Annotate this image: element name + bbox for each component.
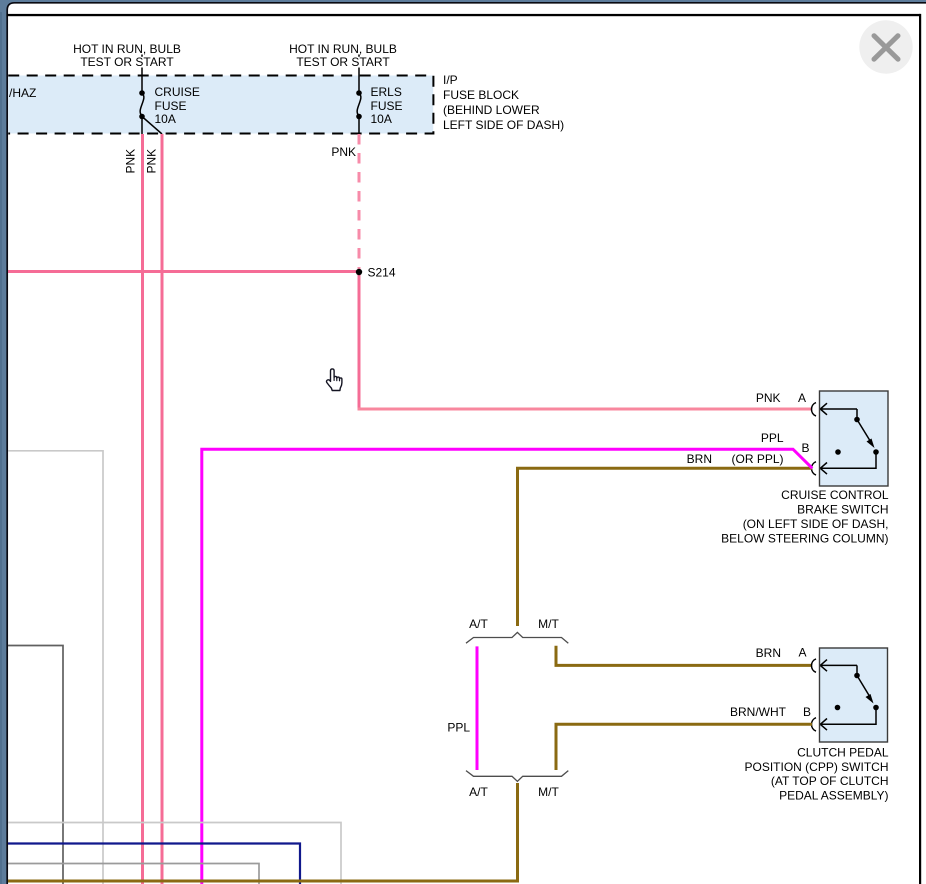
- blue page top strip: [0, 0, 926, 3]
- title separator line: [7, 14, 921, 16]
- svg-text:BRN: BRN: [756, 646, 781, 660]
- wire BRN from lower brace to left edge: [8, 783, 518, 881]
- pin B terminal arrow: [820, 452, 876, 474]
- blue page left column: [0, 0, 7, 884]
- pin A terminal arrow: [820, 403, 857, 415]
- svg-text:PNK: PNK: [756, 391, 781, 405]
- svg-text:CRUISE: CRUISE: [155, 85, 200, 99]
- svg-text:PEDAL ASSEMBLY): PEDAL ASSEMBLY): [779, 789, 888, 803]
- wire PNK horizontal to brake switch pin A: [358, 408, 813, 411]
- stationary contact dot: [835, 705, 841, 711]
- svg-text:S214: S214: [368, 266, 396, 280]
- svg-text:B: B: [803, 705, 811, 719]
- splice S214: [356, 269, 362, 275]
- stationary contact dot: [835, 449, 841, 455]
- wire PNK horizontal to left edge: [8, 270, 359, 273]
- close button: [859, 20, 912, 73]
- svg-text:A: A: [798, 646, 806, 660]
- label I/P FUSE BLOCK: [443, 73, 564, 132]
- navy wire corner 4: [8, 844, 300, 884]
- svg-text:POSITION (CPP) SWITCH: POSITION (CPP) SWITCH: [745, 760, 889, 774]
- switch arm (cruise brake switch): [856, 409, 858, 418]
- wire PNK vertical 2 (from cruise fuse branch): [161, 134, 164, 884]
- svg-text:FUSE: FUSE: [371, 99, 403, 113]
- gray wire (unrelated circuit) corner 1: [8, 451, 103, 884]
- svg-text:HOT IN RUN, BULB: HOT IN RUN, BULB: [289, 42, 397, 56]
- svg-text:PNK: PNK: [145, 149, 159, 174]
- label HOT IN RUN (ERLS fuse): [289, 42, 397, 69]
- dark gray wire corner 2: [8, 646, 63, 884]
- wire PNK from S214 down and right to brake switch pin A: [358, 272, 361, 408]
- svg-text:BRN: BRN: [687, 452, 712, 466]
- svg-text:BELOW STEERING COLUMN): BELOW STEERING COLUMN): [721, 532, 888, 546]
- mouse hand cursor: [327, 369, 342, 391]
- clutch pedal position switch U2 box: [820, 648, 888, 742]
- label HOT IN RUN (CRUISE fuse): [73, 42, 181, 69]
- ERLS fuse F2: [356, 55, 402, 135]
- lower brace A/T M/T: [466, 771, 568, 782]
- wire PNK dashed (ERLS fuse to S214): [358, 134, 361, 272]
- label CRUISE CONTROL BRAKE SWITCH: [721, 488, 889, 546]
- svg-text:HOT IN RUN, BULB: HOT IN RUN, BULB: [73, 42, 181, 56]
- wire BRN M/T branch to CPP switch pin A: [556, 646, 812, 666]
- pin A terminal arrow: [820, 660, 857, 672]
- svg-text:(OR PPL): (OR PPL): [732, 452, 784, 466]
- wire PPL magenta horizontal + vertical: [202, 449, 813, 884]
- label CLUTCH PEDAL POSITION SWITCH: [745, 746, 889, 803]
- pin B connector (female): [812, 718, 817, 731]
- pin A connector (female): [812, 659, 817, 672]
- svg-text:PNK: PNK: [331, 145, 356, 159]
- svg-text:I/P: I/P: [443, 73, 458, 87]
- svg-text:(BEHIND LOWER: (BEHIND LOWER: [443, 103, 540, 117]
- svg-text:BRN/WHT: BRN/WHT: [730, 705, 787, 719]
- upper brace A/T M/T: [466, 632, 568, 643]
- pin B terminal arrow: [820, 708, 876, 731]
- svg-text:(AT TOP OF CLUTCH: (AT TOP OF CLUTCH: [771, 774, 889, 788]
- svg-text:TEST OR START: TEST OR START: [296, 55, 390, 69]
- svg-text:CRUISE CONTROL: CRUISE CONTROL: [781, 488, 889, 502]
- svg-text:M/T: M/T: [538, 785, 559, 799]
- svg-text:(ON LEFT SIDE OF DASH,: (ON LEFT SIDE OF DASH,: [743, 517, 889, 531]
- cruise fuse F1: [139, 55, 200, 135]
- svg-text:10A: 10A: [155, 112, 176, 126]
- svg-text:A/T: A/T: [469, 785, 488, 799]
- svg-text:M/T: M/T: [538, 617, 559, 631]
- svg-text:PPL: PPL: [447, 721, 470, 735]
- svg-text:BRAKE SWITCH: BRAKE SWITCH: [797, 503, 888, 517]
- svg-text:LEFT SIDE OF DASH): LEFT SIDE OF DASH): [443, 118, 564, 132]
- wire BRN from brake switch pin B: [518, 468, 813, 626]
- blue corner patch behind rounded corner: [0, 0, 16, 12]
- modal right border: [919, 14, 921, 884]
- I/P fuse block (dashed box): [8, 76, 433, 134]
- svg-text:TEST OR START: TEST OR START: [80, 55, 174, 69]
- svg-text:PNK: PNK: [124, 149, 138, 174]
- cruise control brake switch U1 box: [820, 391, 889, 486]
- wire PPL between braces: [476, 646, 479, 770]
- pin A connector (female): [812, 403, 817, 416]
- wire BRN/WHT from CPP pin B: [556, 724, 812, 770]
- svg-text:10A: 10A: [371, 112, 392, 126]
- svg-text:ERLS: ERLS: [371, 85, 402, 99]
- light gray wire corner 3: [8, 823, 341, 884]
- svg-text:CLUTCH PEDAL: CLUTCH PEDAL: [797, 746, 889, 760]
- svg-text:A: A: [798, 391, 806, 405]
- svg-text:FUSE BLOCK: FUSE BLOCK: [443, 88, 519, 102]
- svg-text:B: B: [801, 441, 809, 455]
- moving contact dot: [873, 705, 879, 711]
- svg-text:PPL: PPL: [761, 431, 784, 445]
- svg-text:A/T: A/T: [469, 617, 488, 631]
- moving contact dot: [873, 449, 879, 455]
- wire PNK vertical 1 (from cruise fuse): [141, 134, 144, 884]
- svg-text:/HAZ: /HAZ: [9, 86, 36, 100]
- svg-text:FUSE: FUSE: [155, 99, 187, 113]
- switch arm (CPP switch): [856, 665, 858, 674]
- pin B connector (female): [812, 462, 817, 475]
- gray wire corner 5: [8, 864, 259, 884]
